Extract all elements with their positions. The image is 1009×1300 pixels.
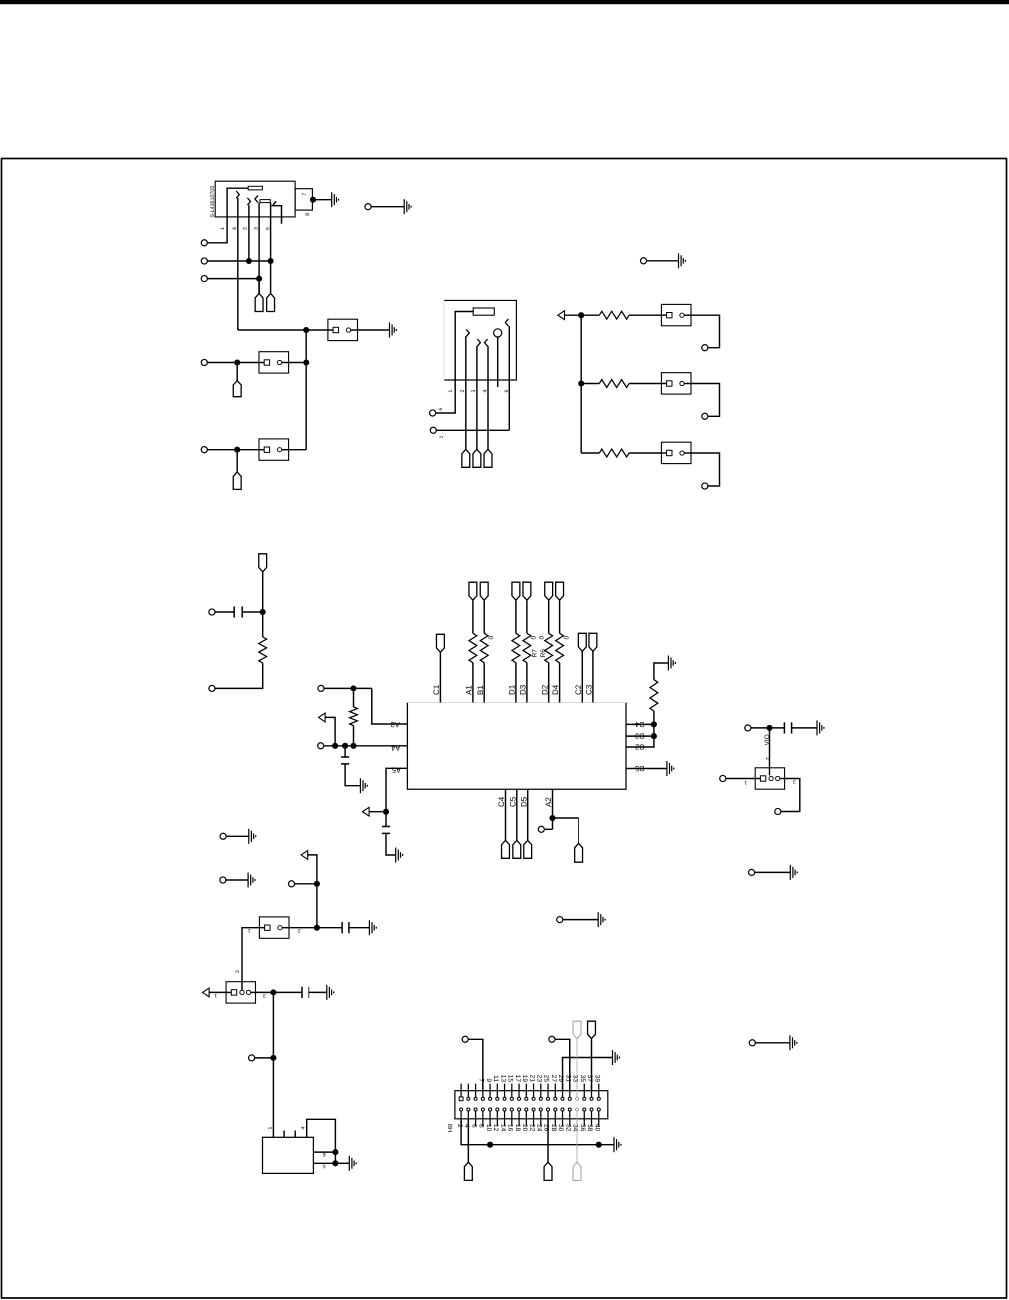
svg-text:2: 2 xyxy=(439,435,445,438)
svg-text:C2: C2 xyxy=(574,684,583,695)
svg-text:B3: B3 xyxy=(635,732,644,741)
svg-text:4: 4 xyxy=(301,1127,307,1130)
svg-text:1: 1 xyxy=(248,927,251,933)
svg-text:3: 3 xyxy=(793,778,796,784)
svg-text:D1: D1 xyxy=(508,684,517,695)
svg-text:1: 1 xyxy=(220,227,226,230)
svg-text:C5: C5 xyxy=(508,796,517,807)
svg-text:6: 6 xyxy=(438,408,444,411)
svg-text:3: 3 xyxy=(263,992,266,998)
svg-text:2: 2 xyxy=(460,390,466,393)
svg-text:0: 0 xyxy=(488,636,495,640)
svg-text:13: 13 xyxy=(499,1075,506,1083)
svg-text:27: 27 xyxy=(550,1075,557,1083)
svg-text:9: 9 xyxy=(485,1078,492,1082)
svg-text:21: 21 xyxy=(528,1075,535,1083)
svg-text:2: 2 xyxy=(235,970,241,973)
svg-text:22: 22 xyxy=(528,1124,535,1132)
svg-text:3: 3 xyxy=(471,390,477,393)
svg-text:R6: R6 xyxy=(540,649,547,658)
svg-text:0: 0 xyxy=(564,636,571,640)
svg-text:14: 14 xyxy=(499,1124,506,1132)
svg-text:VIO: VIO xyxy=(764,734,771,745)
svg-text:7: 7 xyxy=(302,193,308,196)
svg-text:20: 20 xyxy=(521,1124,528,1132)
svg-text:5: 5 xyxy=(323,1163,326,1169)
svg-text:30: 30 xyxy=(557,1124,564,1132)
svg-text:D2: D2 xyxy=(540,684,549,695)
svg-text:B2: B2 xyxy=(635,743,644,752)
svg-text:2: 2 xyxy=(765,757,771,760)
svg-text:40: 40 xyxy=(593,1124,600,1132)
svg-text:A4: A4 xyxy=(391,743,400,752)
svg-text:15: 15 xyxy=(507,1075,514,1083)
svg-text:12: 12 xyxy=(492,1124,499,1132)
svg-text:34: 34 xyxy=(572,1124,579,1132)
svg-text:D3: D3 xyxy=(519,684,528,695)
svg-text:1: 1 xyxy=(214,992,217,998)
svg-text:B4: B4 xyxy=(635,720,644,729)
svg-text:2: 2 xyxy=(298,927,301,933)
svg-text:0: 0 xyxy=(530,636,537,640)
svg-text:25: 25 xyxy=(543,1075,550,1083)
svg-text:32: 32 xyxy=(564,1124,571,1132)
svg-text:D5: D5 xyxy=(519,796,528,807)
svg-text:16: 16 xyxy=(507,1124,514,1132)
svg-text:38: 38 xyxy=(586,1124,593,1132)
svg-text:10: 10 xyxy=(485,1124,492,1132)
svg-text:39: 39 xyxy=(593,1075,600,1083)
svg-text:35: 35 xyxy=(579,1075,586,1083)
svg-text:C4: C4 xyxy=(497,796,506,807)
svg-text:24: 24 xyxy=(535,1124,542,1132)
svg-text:A5: A5 xyxy=(392,765,401,774)
svg-text:18: 18 xyxy=(514,1124,521,1132)
svg-text:17: 17 xyxy=(514,1075,521,1083)
svg-text:11: 11 xyxy=(492,1075,499,1082)
svg-text:19: 19 xyxy=(521,1075,528,1083)
svg-text:6: 6 xyxy=(504,390,510,393)
svg-text:8: 8 xyxy=(478,1124,485,1128)
svg-text:C1: C1 xyxy=(432,684,441,695)
svg-text:B1: B1 xyxy=(476,685,485,695)
svg-text:5: 5 xyxy=(266,227,272,230)
svg-text:A2: A2 xyxy=(544,797,553,807)
svg-text:4: 4 xyxy=(232,227,238,230)
svg-text:2: 2 xyxy=(243,227,249,230)
svg-text:BH: BH xyxy=(446,1124,453,1132)
svg-text:C3: C3 xyxy=(585,684,594,695)
svg-text:A1: A1 xyxy=(465,685,474,695)
svg-text:23: 23 xyxy=(535,1075,542,1083)
svg-text:A3: A3 xyxy=(391,720,400,729)
svg-text:S-L43510705: S-L43510705 xyxy=(210,186,216,218)
svg-text:R7: R7 xyxy=(531,649,538,658)
svg-text:1: 1 xyxy=(267,1127,273,1130)
svg-text:33: 33 xyxy=(572,1075,579,1083)
svg-text:36: 36 xyxy=(579,1124,586,1132)
svg-text:1: 1 xyxy=(448,390,454,393)
svg-text:1: 1 xyxy=(744,779,747,785)
svg-text:28: 28 xyxy=(550,1124,557,1132)
svg-text:D4: D4 xyxy=(551,684,560,695)
svg-text:6: 6 xyxy=(323,1151,326,1157)
svg-text:4: 4 xyxy=(482,390,488,393)
svg-text:B5: B5 xyxy=(635,764,644,773)
svg-text:6: 6 xyxy=(470,1124,477,1128)
svg-text:3: 3 xyxy=(253,227,259,230)
svg-text:0: 0 xyxy=(539,636,546,640)
svg-text:8: 8 xyxy=(305,213,311,216)
